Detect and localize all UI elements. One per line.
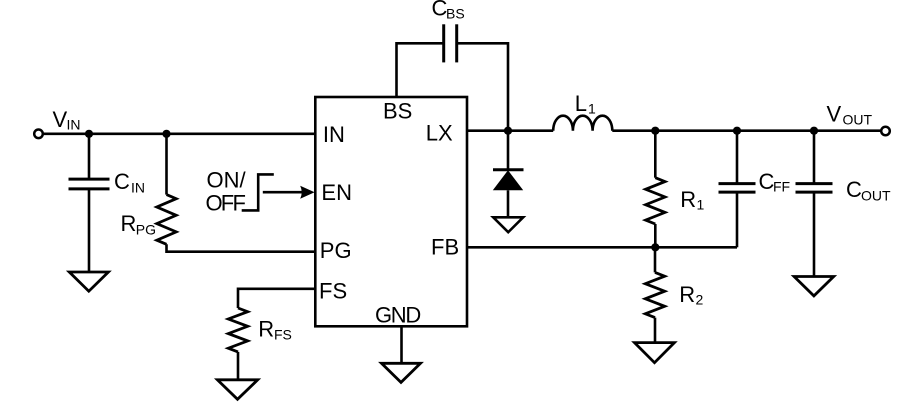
svg-text:LX: LX (426, 121, 453, 146)
resistor R1 label (680, 187, 704, 213)
resistor R2 label (679, 282, 703, 308)
wire diode cathode (507, 131, 510, 170)
svg-text:BS: BS (446, 6, 465, 22)
capacitor CBS label (432, 0, 465, 22)
resistor RPG (157, 195, 176, 245)
node VIN label (53, 107, 81, 133)
wire CFF bottom (736, 192, 739, 247)
resistor R2 (645, 272, 664, 317)
wire RPG top (165, 134, 168, 195)
svg-text:OUT: OUT (861, 187, 891, 203)
wire RPG to PG pin (167, 244, 316, 251)
ground R2 (635, 343, 675, 363)
resistor RFS (228, 308, 247, 352)
resistor RPG label (121, 211, 157, 237)
svg-text:2: 2 (696, 292, 704, 308)
capacitor COUT (796, 184, 833, 193)
wire RFS bottom (237, 352, 240, 380)
svg-text:R: R (121, 211, 137, 236)
ground CIN (69, 272, 108, 291)
capacitor CIN label (114, 169, 145, 195)
svg-text:OFF: OFF (206, 191, 246, 216)
ground COUT (794, 277, 834, 296)
node RPG junction (162, 130, 170, 138)
svg-text:1: 1 (588, 101, 596, 117)
node LX diode junction (504, 127, 512, 135)
resistor RFS label (258, 316, 292, 342)
svg-text:EN: EN (321, 180, 352, 205)
wire R1 top (654, 131, 657, 178)
node CIN junction (85, 130, 93, 138)
svg-text:FS: FS (319, 279, 347, 304)
resistor R1 (646, 178, 665, 224)
diode D1 (493, 170, 524, 191)
wire EN arrow (263, 191, 302, 194)
svg-text:R: R (680, 187, 696, 212)
inductor L1 (553, 116, 612, 131)
wire FS pin (238, 289, 315, 308)
wire CIN bottom (88, 189, 91, 272)
wire R1 bottom (654, 224, 657, 247)
capacitor CFF label (759, 169, 791, 194)
svg-text:FS: FS (274, 326, 292, 342)
op-amp U1 IC body (315, 97, 467, 326)
node CFF junction (733, 127, 741, 135)
node COUT junction (810, 127, 818, 135)
svg-text:C: C (114, 169, 130, 194)
capacitor COUT label (846, 177, 891, 203)
svg-text:OUT: OUT (843, 112, 873, 128)
svg-text:FB: FB (431, 235, 459, 260)
svg-text:V: V (827, 101, 842, 126)
node L1 R1 junction (651, 127, 659, 135)
wire L1 to VOUT (612, 129, 880, 132)
svg-text:R: R (258, 316, 274, 341)
node VOUT label (827, 101, 873, 127)
wire CBS right to LX (457, 43, 508, 130)
terminal VIN (34, 130, 43, 139)
wire LX pin (467, 129, 553, 132)
ground GND pin (382, 363, 421, 382)
step symbol ON/OFF (242, 174, 274, 210)
node FB junction (651, 243, 659, 251)
wire GND pin (400, 326, 403, 363)
svg-text:V: V (53, 107, 68, 132)
svg-text:BS: BS (383, 98, 412, 123)
svg-text:C: C (846, 177, 862, 202)
capacitor CBS (444, 24, 457, 62)
svg-text:IN: IN (67, 116, 81, 132)
node ON/OFF label (206, 168, 247, 216)
wire VIN to IN pin (44, 133, 316, 136)
svg-text:ON/: ON/ (207, 168, 247, 193)
svg-text:PG: PG (136, 221, 156, 237)
inductor L1 label (575, 91, 596, 117)
ground RFS (217, 380, 257, 400)
capacitor CIN (69, 179, 110, 189)
svg-text:1: 1 (697, 197, 705, 213)
wire R2 top (654, 247, 657, 272)
wire FB pin (467, 246, 737, 249)
ground diode (493, 217, 523, 232)
svg-text:PG: PG (320, 238, 352, 263)
svg-text:IN: IN (323, 122, 345, 147)
wire COUT bottom (813, 192, 816, 276)
wire CFF top (736, 131, 739, 184)
wire CIN top (88, 134, 91, 179)
svg-text:GND: GND (375, 303, 420, 328)
terminal VOUT (881, 127, 890, 136)
svg-text:L: L (575, 91, 587, 116)
capacitor CFF (719, 184, 756, 193)
svg-text:R: R (679, 282, 695, 307)
svg-text:IN: IN (131, 179, 145, 195)
svg-text:FF: FF (773, 179, 790, 195)
arrowhead EN (300, 186, 314, 199)
wire COUT top (813, 131, 816, 184)
wire BS pin up (397, 43, 444, 97)
wire diode anode (507, 190, 510, 217)
wire R2 bottom (654, 318, 657, 343)
